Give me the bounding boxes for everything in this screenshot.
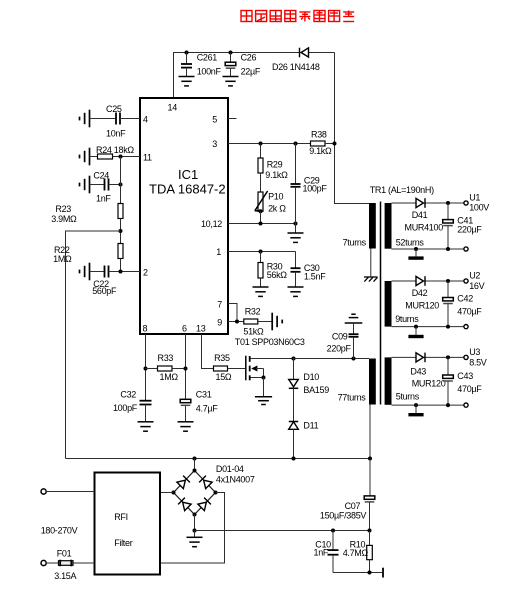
wire pin 7 jog to pin 9: [228, 304, 237, 322]
resistor R29 9.1k: [258, 144, 288, 193]
svg-text:TDA 16847-2: TDA 16847-2: [149, 182, 226, 197]
diode bridge top-right: [199, 476, 212, 489]
node junction U1 return ground: [414, 247, 418, 251]
wire mains neutral to fuse: [46, 562, 58, 564]
svg-text:10,12: 10,12: [201, 219, 222, 229]
node terminal U3 8.5V: [464, 347, 487, 367]
capacitor C30 1.5nF: [288, 252, 327, 297]
wire mains line to RFI: [46, 491, 94, 493]
svg-text:R24 18kΩ: R24 18kΩ: [96, 145, 134, 155]
svg-text:MUR120: MUR120: [412, 379, 446, 389]
svg-text:C07: C07: [345, 501, 361, 511]
node junction 77turns/C07: [368, 457, 372, 461]
transformer TR1 primary winding 77turns: [338, 359, 376, 405]
wire pin 9: [228, 321, 244, 323]
node junction C07/R10: [368, 529, 372, 533]
svg-text:C32: C32: [120, 390, 136, 400]
diode bridge top-left: [177, 476, 190, 489]
wire U1 output top row: [392, 202, 464, 204]
node terminal U2 16V: [464, 271, 485, 291]
svg-text:3.9MΩ: 3.9MΩ: [51, 214, 77, 224]
wire bridge right vertex loop to RFI bottom: [161, 493, 225, 564]
diode D10 BA159: [289, 359, 330, 396]
resistor R30 56k: [253, 252, 288, 297]
svg-text:9turns: 9turns: [395, 314, 419, 324]
wire P10 to pin10,12 row: [260, 211, 262, 223]
ground U1 return bar: [408, 249, 423, 260]
svg-text:1MΩ: 1MΩ: [53, 254, 72, 264]
capacitor C261 100nF: [179, 53, 222, 86]
svg-text:56kΩ: 56kΩ: [267, 270, 288, 280]
wire drain row to C09 junction and to 77turns winding: [294, 358, 370, 360]
node terminal mains neutral: [41, 560, 46, 565]
node junction U3 return ground: [414, 403, 418, 407]
svg-text:R23: R23: [55, 204, 71, 214]
potentiometer P10 2k: [255, 191, 286, 213]
svg-text:C42: C42: [457, 294, 473, 304]
svg-text:8: 8: [143, 324, 148, 334]
svg-text:MUR4100: MUR4100: [405, 222, 444, 232]
wire U3 output top row: [392, 356, 464, 358]
svg-text:14: 14: [168, 103, 178, 113]
resistor R23 3.9M: [51, 204, 123, 225]
wire R23 to R22: [120, 219, 122, 244]
svg-text:470µF: 470µF: [457, 384, 482, 394]
node junction P10 bottom: [259, 222, 263, 226]
node terminal U1 return: [464, 247, 468, 251]
svg-text:U2: U2: [469, 271, 480, 281]
op-amp / controller IC U1 box IC1 TDA 16847-2: [140, 98, 228, 334]
svg-text:T01 SPP03N60C3: T01 SPP03N60C3: [235, 337, 305, 347]
node junction C43 bottom: [446, 403, 450, 407]
node terminal U1 100V: [464, 193, 489, 213]
svg-text:4x1N4007: 4x1N4007: [216, 475, 255, 485]
node junction C43 top: [446, 355, 450, 359]
transformer TR1 secondary 5turns: [385, 357, 420, 404]
resistor R38 9.1k: [309, 130, 334, 157]
svg-text:R29: R29: [267, 160, 283, 170]
svg-text:100V: 100V: [469, 203, 489, 213]
node junction pin11/R23: [119, 155, 123, 159]
svg-text:13: 13: [196, 324, 206, 334]
node junction bridge vertices: [172, 469, 218, 517]
svg-text:D11: D11: [303, 420, 318, 430]
node junction C41 bottom: [446, 247, 450, 251]
svg-text:77turns: 77turns: [338, 393, 367, 403]
transformer TR1 secondary 52turns: [385, 203, 425, 249]
fuse F01 3.15A: [54, 549, 94, 581]
svg-text:RFI: RFI: [114, 512, 128, 522]
wire U2 return row: [392, 326, 464, 328]
node junction pin7/pin9: [235, 320, 239, 324]
node junction HV divider tap: [119, 229, 123, 233]
resistor R35 15 ohm: [214, 353, 246, 382]
node junction R10 bottom: [368, 571, 372, 575]
capacitor C42 470uF electrolytic: [443, 281, 483, 327]
node junction pin8/R33: [144, 367, 148, 371]
svg-text:1.5nF: 1.5nF: [304, 272, 326, 282]
diode D41 MUR4100: [405, 198, 444, 232]
wire U2 output top row: [392, 280, 464, 282]
svg-text:3: 3: [212, 139, 217, 149]
wire bridge left vertex to RFI: [161, 492, 174, 494]
node terminal U3 return: [464, 403, 468, 407]
svg-text:100pF: 100pF: [113, 403, 138, 413]
svg-text:C24: C24: [93, 171, 109, 181]
resistor R10 4.7M: [343, 531, 373, 573]
node junction C41 top: [446, 201, 450, 205]
node junction U2 return ground: [414, 325, 418, 329]
node junction R30 top: [259, 250, 263, 254]
svg-text:52turns: 52turns: [396, 238, 425, 248]
capacitor C31 4.7uF electrolytic: [178, 390, 219, 432]
pin 4 input: terminal, capacitor C25 10nF: [80, 104, 141, 139]
capacitor C10 1nF: [313, 531, 338, 573]
transistor Q1 MOSFET T01 SPP03N60C3: [235, 337, 305, 397]
wire primary bottom to chassis: [370, 249, 372, 277]
node junction P10 wiper: [259, 209, 263, 213]
capacitor C09 220pF with inverted ground: [327, 314, 363, 358]
node junction C29 top: [294, 142, 298, 146]
svg-text:2: 2: [143, 268, 148, 278]
wire pin 1 row: [228, 251, 296, 253]
wire pin 6 down: [185, 334, 187, 399]
wire C10/R10 bottom row: [333, 572, 382, 574]
wire U3 return row: [392, 404, 464, 406]
wire bridge bottom vertex: [194, 515, 196, 531]
svg-text:470µF: 470µF: [457, 306, 482, 316]
svg-text:D10: D10: [303, 372, 319, 382]
ground MOSFET source: [255, 397, 272, 405]
RFI Filter box: [95, 473, 161, 575]
svg-text:U1: U1: [469, 193, 480, 203]
wire pin 10,12 row: [228, 223, 296, 225]
svg-text:9.1kΩ: 9.1kΩ: [265, 170, 288, 180]
wire 77turns bottom to HV- rail: [369, 405, 371, 459]
node junction C26 on rail: [229, 51, 233, 55]
diode D11: [289, 388, 319, 458]
svg-text:D41: D41: [412, 210, 428, 220]
svg-text:F01: F01: [57, 549, 72, 559]
node junction C42 bottom: [446, 325, 450, 329]
node junction C24: [119, 183, 123, 187]
pin 5 stub wire: [228, 118, 237, 120]
svg-text:2k Ω: 2k Ω: [268, 203, 286, 213]
svg-text:9.1kΩ: 9.1kΩ: [309, 146, 332, 156]
node junction R29 top: [259, 142, 263, 146]
wire pin 13 to R35: [202, 334, 214, 369]
svg-text:220µF: 220µF: [457, 225, 482, 235]
node junction pin2: [119, 270, 123, 274]
svg-text:D26 1N4148: D26 1N4148: [272, 62, 320, 72]
node junction C42 top: [446, 279, 450, 283]
capacitor C24 1nF with terminal: [80, 171, 121, 204]
transformer core: [380, 202, 382, 405]
node junction D11 bottom: [292, 457, 296, 461]
svg-text:5turns: 5turns: [396, 391, 420, 401]
svg-text:IC1: IC1: [178, 167, 198, 182]
svg-text:TR1 (AL=190nH): TR1 (AL=190nH): [370, 185, 434, 195]
node terminal mains line: [41, 489, 46, 494]
node terminal Y-cap return bar: [382, 568, 384, 578]
svg-text:4.7MΩ: 4.7MΩ: [343, 548, 369, 558]
svg-text:R38: R38: [311, 130, 327, 140]
ground bridge return: [187, 531, 203, 547]
svg-text:6: 6: [182, 324, 187, 334]
node junction bridge bottom / 0V row: [193, 529, 197, 533]
svg-text:100nF: 100nF: [197, 67, 222, 77]
wire 0V row to C07/R10: [195, 530, 370, 532]
svg-text:560pF: 560pF: [92, 286, 117, 296]
wire HV+ rail bottom: [66, 458, 371, 460]
node junction pin6/R33: [184, 367, 188, 371]
diode D43 MUR120: [410, 353, 445, 389]
node junction R38/D26 rail: [333, 142, 337, 146]
node junction C261 on rail: [185, 51, 189, 55]
ground chassis symbol: [364, 277, 378, 282]
wire tap to left HV rail: [66, 231, 121, 459]
svg-text:16V: 16V: [469, 281, 484, 291]
svg-text:7: 7: [217, 299, 222, 309]
svg-text:22µF: 22µF: [241, 67, 261, 77]
svg-text:R33: R33: [158, 353, 174, 363]
rectifier bridge D01-04 4x1N4007 diamond: [174, 464, 255, 515]
capacitor C07 150uF/385V electrolytic: [320, 459, 375, 531]
capacitor C41 220uF electrolytic: [443, 203, 483, 249]
svg-text:10nF: 10nF: [106, 129, 126, 139]
svg-text:BA159: BA159: [303, 385, 329, 395]
diode bridge bottom-right: [198, 498, 211, 511]
resistor R33 1M: [146, 353, 186, 382]
transformer TR1 primary winding 7turns: [343, 203, 376, 249]
capacitor C29 100pF: [291, 144, 328, 224]
svg-text:Filter: Filter: [114, 538, 133, 548]
node junction bridge top: [193, 457, 197, 461]
svg-text:D42: D42: [412, 288, 428, 298]
capacitor C32 100pF: [113, 390, 154, 432]
svg-text:11: 11: [143, 153, 152, 163]
title red text (CJK approximated with strokes): [241, 11, 354, 22]
svg-text:R35: R35: [214, 353, 230, 363]
svg-text:150µF/385V: 150µF/385V: [320, 511, 367, 521]
svg-text:D43: D43: [410, 366, 426, 376]
svg-text:51kΩ: 51kΩ: [243, 326, 264, 336]
svg-text:U3: U3: [469, 347, 480, 357]
svg-text:MUR120: MUR120: [405, 301, 439, 311]
resistor R22 1M: [53, 244, 123, 265]
svg-text:C31: C31: [196, 390, 212, 400]
resistor R32 51k with terminal: [243, 307, 282, 337]
node junction C09 bottom: [352, 357, 356, 361]
svg-text:C43: C43: [457, 371, 473, 381]
ground U3 return bar: [408, 405, 423, 416]
node junction drain / snubber: [292, 357, 296, 361]
svg-text:15Ω: 15Ω: [216, 372, 232, 382]
svg-text:1MΩ: 1MΩ: [160, 372, 179, 382]
wire U1 return row: [392, 248, 464, 250]
svg-text:220pF: 220pF: [327, 343, 352, 353]
ground below pin10,12 row: [288, 224, 304, 243]
svg-text:4.7µF: 4.7µF: [196, 403, 218, 413]
svg-text:1: 1: [216, 247, 221, 257]
capacitor C22 560pF with terminal, pin 2: [80, 263, 141, 296]
svg-text:1nF: 1nF: [313, 548, 328, 558]
diode bridge bottom-left: [178, 498, 191, 511]
svg-text:7turns: 7turns: [343, 237, 367, 247]
node terminal U2 return: [464, 325, 468, 329]
wire R22 to pin2 row: [120, 259, 122, 272]
node junction C29 bottom: [294, 222, 298, 226]
svg-text:4: 4: [143, 115, 148, 125]
svg-text:D01-04: D01-04: [216, 464, 244, 474]
svg-text:100pF: 100pF: [303, 184, 328, 194]
wire top rail from pin14 to D26 and down to transformer primary: [174, 53, 370, 204]
node junction C10 tap: [331, 529, 335, 533]
svg-text:P10: P10: [268, 192, 283, 202]
svg-text:1nF: 1nF: [96, 194, 111, 204]
wire bridge top vertex: [194, 459, 196, 471]
diode D42 MUR120: [405, 276, 439, 310]
diode D26 1N4148: [272, 48, 320, 72]
svg-text:3.15A: 3.15A: [54, 571, 76, 581]
svg-text:R32: R32: [245, 307, 261, 317]
wire pin 8 down: [145, 334, 147, 401]
svg-text:5: 5: [212, 114, 217, 124]
svg-text:C26: C26: [241, 53, 257, 63]
svg-text:C25: C25: [106, 104, 122, 114]
wire pin 3 row: [228, 143, 311, 145]
capacitor C43 470uF electrolytic: [443, 357, 483, 405]
wire vertical feedback chain: [120, 157, 122, 204]
svg-text:8.5V: 8.5V: [469, 357, 487, 367]
capacitor C26 22uF electrolytic: [223, 53, 261, 86]
svg-text:C09: C09: [332, 331, 348, 341]
svg-text:180-270V: 180-270V: [41, 525, 78, 535]
transformer TR1 secondary 9turns: [385, 281, 420, 327]
svg-text:9: 9: [217, 317, 222, 327]
svg-text:C261: C261: [197, 53, 218, 63]
pin 11 input: terminal, resistor R24 18k: [80, 145, 141, 165]
ground U2 return bar: [408, 327, 423, 339]
